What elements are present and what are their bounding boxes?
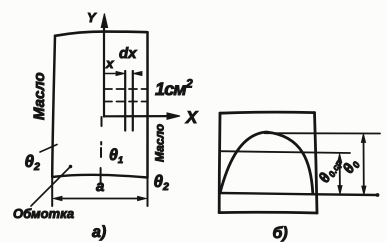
base line <box>219 193 379 197</box>
dx dimension arrow <box>133 71 142 75</box>
dimension a: double arrow line <box>53 196 147 200</box>
theta0sr dimension arrow <box>338 154 343 195</box>
svg-text:а): а) <box>92 224 106 241</box>
dashed level line 1 <box>104 88 148 90</box>
svg-text:X: X <box>185 108 199 127</box>
temperature curve (parabola) <box>220 132 313 193</box>
dashed level line 2 <box>104 101 148 103</box>
svg-text:б): б) <box>273 225 288 242</box>
center line below X axis <box>100 117 103 184</box>
average level line <box>220 151 350 153</box>
svg-text:Y: Y <box>87 10 97 25</box>
theta2 left leader line <box>40 145 57 153</box>
rectangle (figure b) <box>219 112 317 213</box>
svg-text:x: x <box>105 56 114 71</box>
svg-text:Обмотка: Обмотка <box>13 206 74 221</box>
svg-text:a: a <box>96 178 104 195</box>
svg-text:Масло: Масло <box>153 124 167 162</box>
strip right line <box>132 71 134 131</box>
theta0 dimension arrow <box>361 134 366 196</box>
svg-text:dx: dx <box>119 45 137 62</box>
peak level line <box>265 132 381 134</box>
winding rectangle (figure a) <box>52 32 147 178</box>
strip left line <box>124 71 126 131</box>
x dimension arrow <box>104 71 125 75</box>
svg-text:Масло: Масло <box>31 72 48 120</box>
dimension a: extension lines <box>52 177 147 206</box>
winding leader line with dot <box>31 165 72 206</box>
Y axis <box>101 14 107 117</box>
X axis <box>104 113 180 119</box>
